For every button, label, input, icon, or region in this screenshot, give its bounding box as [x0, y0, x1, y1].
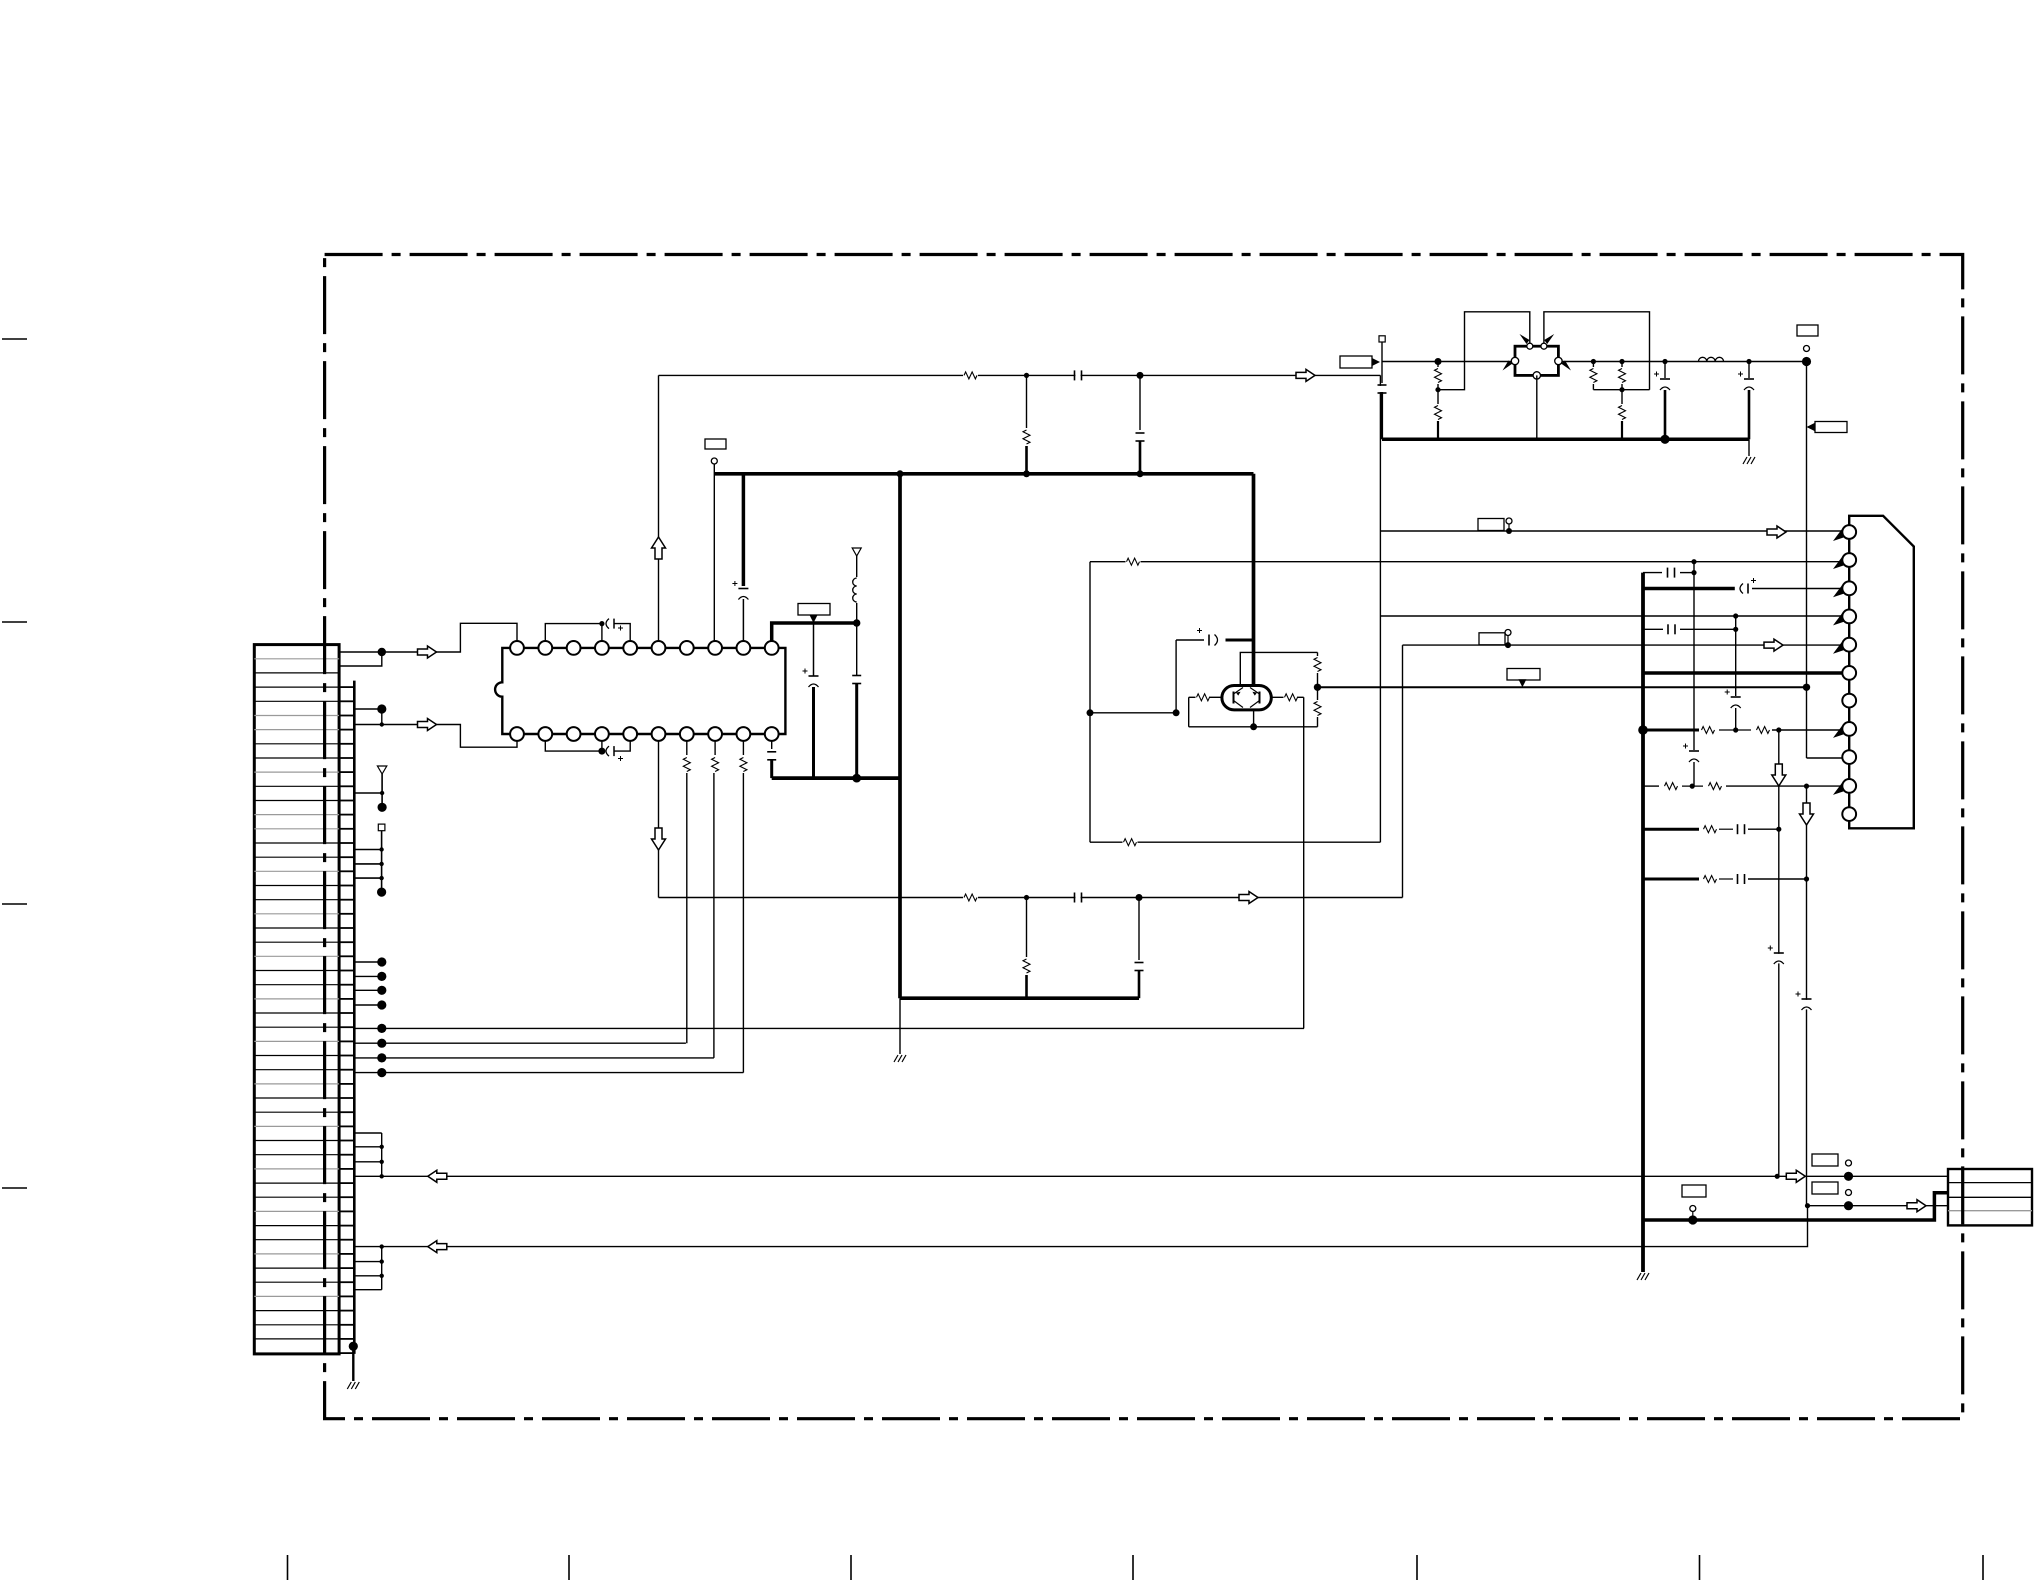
crystal trim arrows — [1520, 334, 1530, 344]
crystal net wire — [1382, 361, 1515, 363]
loop bottom wire y842 — [1090, 841, 1380, 843]
cap divider x1140 — [1139, 375, 1141, 430]
arrow left wire1 — [428, 1170, 447, 1182]
wire CN101 to IC pin1 top — [339, 623, 517, 652]
page tick bottom 7 — [1982, 1555, 1984, 1580]
wire y532 to pin1 right connector — [1380, 530, 1842, 532]
label L11 — [1812, 1182, 1838, 1194]
base resistor right — [1265, 696, 1285, 698]
arrow right net898 — [1239, 892, 1258, 904]
wire y713 to transistor cap — [1090, 712, 1176, 714]
label L6 with circle — [1479, 633, 1505, 645]
page tick left 4 — [2, 1187, 27, 1189]
pol cap x1778 — [1773, 954, 1784, 964]
terminal dot y990.3 — [354, 989, 382, 991]
arrow right wire2 — [1907, 1200, 1926, 1212]
page tick bottom 4 — [1132, 1555, 1134, 1580]
row pin3 thick with polarized cap — [1643, 587, 1735, 591]
page tick bottom 2 — [568, 1555, 570, 1580]
cap C top pins 2-4-5 — [545, 624, 602, 645]
wire row y616 to pin4 — [1380, 615, 1842, 617]
net898 wire — [659, 897, 1403, 899]
inductor L101 — [1698, 357, 1723, 361]
wire to IC pin7 y1043 — [354, 1042, 686, 1044]
test point triangle terminal — [377, 766, 386, 774]
long wire1 y1176 — [354, 1175, 1848, 1177]
square terminal top — [1379, 336, 1385, 342]
connector CN102 body — [1849, 516, 1914, 829]
row A cap y572 — [1643, 572, 1662, 574]
vertical x1735 — [1735, 616, 1737, 696]
page tick left 3 — [2, 903, 27, 905]
ground x900 — [894, 1055, 898, 1062]
wire stub B upper — [354, 709, 382, 725]
transistor Q101 oval — [1222, 686, 1271, 710]
bracket group wire2 — [381, 1247, 383, 1290]
cap leg x1139 — [1138, 898, 1140, 961]
vertical x1806 lower segment — [1806, 786, 1808, 1206]
arrow left wire2 — [428, 1241, 447, 1253]
arrow down pin6 — [652, 828, 666, 850]
junction dot A — [378, 648, 386, 656]
arrow down x1778 — [1772, 764, 1786, 786]
signal arrow B — [418, 719, 437, 731]
left loop — [1438, 312, 1530, 390]
wire to IC pin8 y1058 — [354, 1057, 714, 1059]
junction dots net898 — [1024, 895, 1029, 900]
arrow up pin6 — [652, 537, 666, 559]
resistor pair right of crystal — [1591, 359, 1596, 364]
crystal ground bus y439 — [1382, 438, 1749, 442]
resistor x1438 upper — [1437, 362, 1439, 368]
page tick left 2 — [2, 621, 27, 623]
signal arrow A — [418, 646, 437, 658]
vertical x1778 down — [1778, 730, 1780, 1176]
arrow right pin5 row — [1764, 639, 1783, 651]
polarized cap x1749 — [1746, 359, 1751, 364]
resistor R net375 — [963, 370, 978, 380]
page tick left 1 — [2, 338, 27, 340]
thick wire y1220 — [1643, 1193, 1948, 1220]
thick right bus x1643 — [1641, 573, 1645, 1272]
arrow right wire1 — [1786, 1170, 1805, 1182]
bracket group wire1 — [381, 1133, 383, 1176]
label L2 with triangle — [1340, 356, 1372, 368]
terminal dot y962 — [354, 961, 382, 963]
transistor box right edge resistors — [1317, 652, 1319, 656]
row H y730 resistors — [1638, 725, 1648, 735]
terminal dot y1005 — [354, 1004, 382, 1006]
resistor leg x1026 — [1026, 898, 1028, 958]
ground tail x1749 — [1748, 439, 1750, 456]
ground right bus — [1637, 1273, 1641, 1280]
resistor under IC pin7 — [686, 737, 688, 755]
net375 wire — [659, 374, 1381, 376]
label L3 — [1797, 325, 1818, 336]
junction dot B — [380, 722, 384, 726]
loop right edge x1367 — [1379, 375, 1381, 842]
CN102 pin circles — [1842, 525, 1856, 539]
loop rect left edge x1090 — [1089, 562, 1091, 843]
page tick bottom 6 — [1699, 1555, 1701, 1580]
crystal X101 body — [1515, 346, 1558, 375]
thick wire y998 — [900, 996, 1139, 1000]
IC IC101 body — [495, 648, 785, 734]
junction dot bus x900 — [897, 470, 904, 477]
thick vertical x1253 to transistor — [1252, 474, 1256, 684]
resistor x1438 lower — [1437, 390, 1439, 404]
thick bus y778 under IC — [772, 776, 900, 780]
cap IC pin10 bottom — [771, 739, 773, 749]
wire to IC pin9 y1073 — [354, 1072, 743, 1074]
wire bus to IC pin8 top — [713, 464, 715, 645]
row pin6 thick y673 — [1643, 671, 1843, 675]
connector ground stub — [349, 1342, 358, 1351]
row K y879 — [1643, 878, 1699, 881]
transistor bottom link — [1189, 726, 1318, 728]
loop top wire to CN pin2 right — [1090, 561, 1843, 563]
connector CN101 stub column — [353, 681, 356, 1354]
terminal dot y976.4 — [354, 975, 382, 977]
vertical x1806 to pin9 — [1806, 362, 1808, 759]
row I y786 resistors — [1643, 785, 1659, 787]
resistor loop bottom — [1123, 837, 1138, 847]
cap C bottom pins 2-4-5 — [545, 737, 602, 751]
junction dots net375 — [1024, 373, 1029, 378]
crystal pin circles — [1511, 357, 1518, 364]
label L10 — [1812, 1154, 1838, 1166]
transistor symbols inside — [1233, 692, 1235, 704]
wire1 right end — [1775, 1174, 1780, 1179]
vertical x1694 — [1693, 562, 1695, 750]
external block — [1948, 1169, 2032, 1225]
junction dot x1438 — [1435, 358, 1442, 365]
junction dot collector — [1314, 684, 1321, 691]
IC pin circles top — [510, 641, 524, 655]
coil branch x857 — [852, 548, 861, 556]
x900 ground tail — [899, 998, 901, 1054]
polarized cap x1665 — [1662, 359, 1667, 364]
resistor loop top — [1126, 557, 1141, 567]
label L8 with triangle — [798, 604, 830, 616]
decoupling branch x814 — [813, 623, 815, 676]
label L4 with triangle — [1815, 422, 1847, 433]
wire IC pin6 top to net375 — [658, 375, 660, 645]
connector CN101 body — [254, 645, 339, 1354]
net898 riser to pin5 row — [1402, 645, 1404, 897]
IC pin circles bottom — [510, 727, 524, 741]
ground — [347, 1382, 351, 1389]
cap C net375 — [1075, 370, 1080, 380]
wire IC pin9 top with cap — [742, 474, 746, 586]
thick top bus y474 — [714, 472, 1253, 476]
base resistor left — [1189, 696, 1198, 698]
wire IC pin6 bottom to net898 — [658, 737, 660, 898]
thick vertical x900 — [898, 474, 902, 998]
label L7 with triangle — [1507, 669, 1540, 681]
resistor under IC pin9 — [742, 737, 744, 755]
wire2 right end — [1805, 1203, 1810, 1208]
junction dot x1090 y713 — [1087, 709, 1094, 716]
page tick bottom 5 — [1416, 1555, 1418, 1580]
wire CN101 to IC pin1 bottom — [354, 725, 517, 748]
cap net898 — [1075, 893, 1080, 903]
block boundary dash-dot border — [325, 255, 1963, 1419]
terminal dot B — [377, 704, 386, 713]
arrow right pin1 row — [1767, 526, 1786, 538]
transistor collector riser — [1240, 652, 1317, 686]
label L5 with circle — [1478, 519, 1504, 531]
resistor net898 — [963, 893, 978, 903]
long wire2 y1247 — [354, 1206, 1807, 1247]
wire row y645 to pin5 — [1403, 644, 1843, 646]
net node x1806 top — [1802, 357, 1811, 366]
crystal bottom leg — [1536, 375, 1538, 439]
arrow right net375 — [1296, 369, 1315, 381]
junction dots cap links — [599, 621, 604, 626]
cap leg x1382 — [1381, 362, 1383, 384]
vertical x1304 down to y1028 — [1303, 697, 1305, 1028]
connector CN101 pin rows — [254, 658, 339, 660]
arrow down x1806 — [1800, 803, 1814, 825]
wire stub pin2 — [339, 652, 382, 666]
resistor divider x1026 — [1026, 375, 1028, 428]
wire to transistor base net y1028 — [354, 1027, 1304, 1029]
page tick bottom 3 — [850, 1555, 852, 1580]
row J y829 — [1643, 828, 1699, 831]
row D cap y629 — [1643, 628, 1663, 630]
page tick bottom 1 — [287, 1555, 289, 1580]
thick wire IC pin10 top — [772, 623, 857, 645]
collector wire right y687 — [1318, 686, 1807, 688]
VCC terminal label L1 — [705, 439, 726, 449]
label L9 with circle — [1682, 1185, 1706, 1197]
test point square terminal — [378, 824, 385, 831]
pol cap x1806 — [1801, 1000, 1812, 1010]
resistor under IC pin8 — [714, 737, 716, 755]
CN102 pin arrowheads — [1833, 529, 1845, 541]
right loop — [1544, 312, 1650, 390]
cap into transistor top — [1226, 639, 1254, 642]
